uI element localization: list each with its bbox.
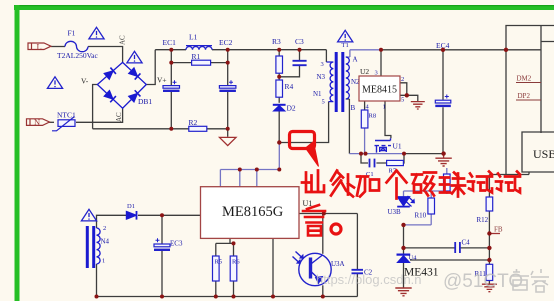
bridge diode upper-right	[128, 68, 140, 80]
VBUS vertical down to FB area	[505, 50, 507, 175]
capacitor EC4	[435, 95, 451, 106]
warning triangle above N4	[81, 209, 96, 221]
earth ground at secondary rail	[435, 158, 451, 166]
inductor L1	[186, 46, 212, 50]
capacitor EC1	[163, 80, 180, 91]
char 珠	[440, 173, 465, 197]
svg-text:FB: FB	[494, 226, 503, 234]
wire NTC to bridge bottom	[76, 108, 123, 122]
resistor R5	[213, 256, 220, 281]
LED U3B	[397, 196, 414, 207]
junction snubber left	[359, 152, 363, 156]
junction rail gnd end	[441, 151, 445, 155]
junction EC1 top rail	[169, 48, 173, 52]
svg-text:3: 3	[321, 61, 324, 68]
transformer pin3 riser	[325, 50, 327, 62]
svg-text:@51CTO: @51CTO	[443, 271, 523, 292]
svg-text:U2: U2	[360, 67, 369, 76]
svg-text:1: 1	[383, 104, 386, 111]
svg-text:5: 5	[322, 99, 325, 106]
svg-text:L: L	[37, 41, 42, 51]
junction VBUS riser rail	[504, 48, 508, 52]
svg-text:EC3: EC3	[170, 240, 183, 248]
ME8165G top pin bus	[220, 169, 279, 171]
svg-text:2: 2	[103, 225, 106, 232]
warning triangle near fuse	[89, 27, 104, 39]
top rail L1 to EC2 and onward to transformer pin3	[212, 49, 326, 51]
U2 pin4 stub	[364, 101, 366, 110]
DM2 pin stub	[516, 82, 541, 84]
R11 bottom lead	[488, 281, 490, 285]
resistor R4	[276, 80, 283, 97]
capacitor C2	[352, 270, 364, 274]
svg-text:U4: U4	[409, 255, 418, 262]
svg-text:EC1: EC1	[163, 38, 177, 47]
thermistor NTC1	[52, 117, 75, 131]
svg-text:T1: T1	[342, 42, 349, 49]
FB top link wire	[489, 172, 529, 175]
junction R3 R4 C3	[277, 75, 281, 79]
U2 pin1 wire to U1 drain	[385, 101, 391, 138]
junction FB node	[487, 231, 491, 235]
svg-text:AC: AC	[119, 35, 127, 45]
T1 secondary winding N2	[346, 57, 350, 99]
resistor R11	[486, 264, 493, 280]
junction U3A collector tap	[322, 212, 326, 216]
junction drain bus corner	[277, 168, 281, 172]
FB stub	[489, 233, 500, 235]
svg-text:C4: C4	[462, 239, 471, 247]
capacitor C4	[455, 242, 460, 253]
resistor R3	[276, 56, 283, 73]
svg-text:R10: R10	[415, 212, 427, 220]
D2 to drain node	[278, 111, 280, 143]
FB chain down	[488, 234, 490, 265]
resistor R9	[444, 174, 451, 191]
char 试 (1)	[468, 172, 492, 193]
junction ME8165G gnd pin	[271, 295, 275, 299]
resistor R2	[189, 126, 207, 131]
warning triangle T1	[338, 30, 353, 42]
resistor R7	[387, 160, 404, 165]
mosfet U1	[375, 138, 392, 152]
capacitor C1	[370, 159, 375, 168]
aux transformer N4 core	[87, 226, 93, 268]
secondary top rail	[350, 49, 381, 51]
IC U2 ME8415	[359, 76, 400, 101]
R12 top lead	[488, 175, 490, 198]
svg-text:R2: R2	[189, 118, 198, 127]
resistor R1	[192, 60, 211, 65]
earth ground under R11	[482, 284, 497, 292]
svg-text:U3B: U3B	[388, 208, 402, 216]
U3B R9 R10 bus	[404, 190, 447, 192]
secondary B riser	[346, 99, 350, 154]
junction C3 top	[298, 48, 302, 52]
char 个	[387, 171, 407, 199]
R4 to D2 lead	[278, 97, 280, 103]
warning triangle left of bridge	[47, 77, 62, 89]
char 试 (2)	[496, 172, 520, 193]
port N	[27, 119, 50, 126]
IC ME8165G	[201, 187, 300, 239]
USB inner box	[522, 132, 554, 172]
wire bridge V- down to primary return rail	[93, 85, 98, 129]
svg-text:ME8165G: ME8165G	[222, 204, 284, 220]
U2 pin5 wire to ground	[400, 95, 418, 101]
svg-text:R4: R4	[285, 82, 294, 91]
junction R5 bottom	[214, 295, 218, 299]
T1 primary winding N3/N1	[326, 62, 333, 102]
resistor R12	[486, 197, 493, 211]
wire fuse to AC corner and down to bridge top	[88, 47, 123, 63]
USB outer box	[541, 26, 554, 134]
green frame left edge	[15, 5, 20, 301]
svg-text:5: 5	[401, 97, 404, 104]
capacitor C3	[293, 61, 307, 65]
ME8165G FB wire right	[299, 213, 357, 215]
svg-text:DM2: DM2	[517, 75, 532, 83]
ME8165G bottom pin to rail	[272, 238, 274, 296]
junction C4 right	[487, 246, 491, 250]
ME8165G drain riser	[278, 143, 280, 170]
R12 bottom lead	[488, 211, 490, 234]
svg-text:U3A: U3A	[331, 260, 345, 268]
N4 top wire to D1	[97, 215, 127, 228]
stub EC2 to power ground	[227, 129, 229, 137]
R3 top lead	[278, 50, 280, 56]
svg-text:B: B	[351, 104, 356, 112]
svg-text:NTC1: NTC1	[57, 111, 76, 120]
U3A emitter riser	[322, 285, 324, 296]
C1 R7 snubber branch	[361, 154, 404, 163]
svg-text:D1: D1	[127, 203, 135, 210]
svg-text:3: 3	[375, 70, 378, 77]
junction U3B bottom	[401, 223, 405, 227]
svg-text:V+: V+	[157, 76, 167, 85]
fuse F1	[65, 41, 88, 51]
svg-text:N4: N4	[101, 238, 110, 246]
char 处	[331, 171, 354, 197]
svg-text:V-: V-	[81, 77, 89, 86]
R8 bottom lead to rail	[364, 128, 366, 154]
VBUS riser and top jog	[506, 26, 541, 50]
junction U4 ref	[487, 258, 491, 262]
svg-text:L1: L1	[189, 33, 198, 42]
junction ME8165G top pin c	[255, 168, 259, 172]
N4 bottom riser	[96, 264, 98, 297]
svg-text:AC: AC	[115, 112, 123, 122]
junction U2 pin3 rail	[379, 48, 383, 52]
resistor R10	[428, 198, 435, 214]
R9 leads	[446, 168, 448, 194]
secondary ground rail	[349, 153, 404, 155]
shunt regulator U4 ME431	[397, 255, 411, 263]
junction snubber right	[402, 152, 406, 156]
ME8165G top pin stubs	[220, 170, 256, 187]
junction R6 top	[232, 241, 236, 245]
DP2 pin stub	[516, 99, 541, 101]
R10 bottom lead	[430, 214, 432, 225]
transformer T1 core	[336, 52, 343, 112]
R6 leads	[233, 243, 235, 296]
bridge diode lower-left	[104, 90, 116, 102]
U4 ref wire	[410, 259, 489, 261]
svg-text:N1: N1	[313, 90, 322, 98]
U2 pin2 wire	[400, 83, 407, 96]
svg-text:C3: C3	[295, 37, 304, 46]
resistor R8	[361, 110, 368, 128]
watermark	[316, 269, 549, 292]
C2 vertical	[356, 214, 358, 297]
diode D2	[273, 105, 286, 111]
earth ground under U4	[395, 288, 411, 296]
svg-text:D2: D2	[287, 104, 296, 113]
svg-text:R1: R1	[192, 52, 201, 61]
R5 leads	[215, 243, 217, 296]
U4 anode to ground	[403, 263, 405, 288]
svg-text:R3: R3	[272, 37, 281, 46]
junction U4 cathode	[401, 246, 405, 250]
svg-text:DB1: DB1	[138, 97, 152, 106]
warning triangle above bridge	[127, 51, 142, 63]
drain node wire to transformer pin5	[279, 102, 328, 143]
svg-text:A: A	[353, 56, 358, 64]
C3 bottom lead to R3/R4 junction	[279, 66, 299, 77]
junction EC2 R2 ground	[226, 127, 230, 131]
red annotation text line1: 此处加个磁珠试试	[302, 171, 520, 236]
C3 top lead	[299, 50, 301, 61]
capacitor EC2	[219, 80, 236, 91]
primary return rail with R2	[93, 128, 228, 130]
junction U3A emitter rail	[321, 295, 325, 299]
svg-text:DP2: DP2	[518, 92, 531, 100]
wire L port to fuse	[51, 46, 65, 48]
D1 to EC3/ME8165G node	[138, 214, 201, 216]
secondary rail A riser	[346, 50, 350, 57]
bridge rectifier DB1	[97, 62, 146, 108]
red annotation callout box	[290, 132, 319, 167]
char 加	[357, 177, 379, 197]
optocoupler transistor U3A	[293, 252, 332, 286]
svg-text:R12: R12	[477, 216, 489, 224]
EC2 vertical branch	[227, 50, 229, 129]
junction R3 top	[277, 48, 281, 52]
char 此	[302, 171, 324, 193]
U3A collector riser	[322, 214, 324, 254]
svg-text:N: N	[34, 117, 40, 127]
R10 top lead	[430, 191, 432, 198]
svg-text:F1: F1	[68, 29, 76, 38]
svg-text:R8: R8	[369, 113, 377, 120]
earth ground at U2 pin5	[411, 102, 425, 109]
junction EC4 top rail	[441, 48, 445, 52]
junction EC1 R1	[169, 61, 173, 65]
EC4 vertical	[442, 50, 444, 154]
svg-text:1: 1	[102, 258, 105, 265]
N4 winding	[97, 228, 101, 264]
wire N port to NTC	[49, 121, 54, 123]
R3 to R4 junction	[278, 73, 280, 80]
green frame top edge	[14, 5, 554, 10]
U2 pin3 riser	[380, 50, 382, 76]
port L	[28, 43, 51, 50]
svg-text:T2AL250Vac: T2AL250Vac	[57, 51, 98, 60]
svg-text:R6: R6	[232, 259, 240, 266]
svg-text:N3: N3	[317, 73, 326, 81]
svg-text:R5: R5	[215, 259, 223, 266]
power ground under EC2	[220, 137, 237, 145]
diode D1	[126, 211, 136, 220]
svg-text:https://blog.csdn.n: https://blog.csdn.n	[316, 272, 422, 287]
junction EC3 bottom	[160, 295, 164, 299]
aux bottom rail	[97, 296, 358, 298]
resistor R6	[230, 256, 237, 281]
U3B bottom wire	[404, 224, 432, 226]
R1 branch wires	[171, 62, 227, 64]
junction U2 pin2 pin5	[405, 93, 409, 97]
svg-text:EC2: EC2	[219, 38, 233, 47]
U4 top lead	[403, 225, 405, 254]
wire bridge V+ up to top rail	[146, 50, 155, 85]
U3B top lead	[403, 191, 405, 196]
junction R8 rail	[364, 152, 368, 156]
C4 wire	[404, 247, 490, 249]
junction EC2 top rail	[226, 48, 230, 52]
svg-text:U1: U1	[393, 142, 402, 151]
junction N4 bottom rail	[95, 295, 99, 299]
junction D2 drain node	[277, 140, 281, 144]
junction R6 bottom	[232, 295, 236, 299]
V+ top rail to L1	[155, 49, 186, 51]
svg-text:2: 2	[401, 76, 404, 83]
ground stub at rail end	[443, 154, 445, 158]
char 磁	[412, 173, 436, 196]
junction D1 EC3	[160, 213, 164, 217]
junction EC2 R1	[226, 61, 230, 65]
capacitor EC3	[154, 238, 170, 250]
red annotation text line2: 看 。	[303, 205, 325, 236]
R5 R6 top bus	[216, 238, 234, 243]
junction ME8165G top pin b	[238, 168, 242, 172]
svg-text:ME8415: ME8415	[362, 85, 397, 96]
svg-text:USB: USB	[533, 147, 554, 161]
EC3 vertical	[161, 215, 163, 296]
bridge diode lower-right	[128, 90, 140, 102]
EC1 vertical branch	[170, 50, 172, 129]
junction EC1 bottom	[169, 127, 173, 131]
bridge diode upper-left	[104, 68, 116, 80]
